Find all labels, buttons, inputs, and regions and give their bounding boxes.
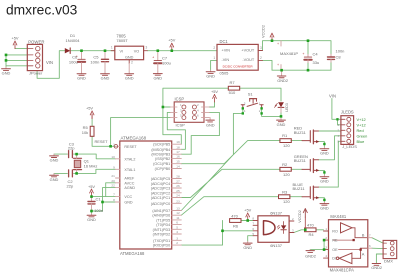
svg-text:25: 25: [176, 189, 180, 193]
svg-text:BUZ11: BUZ11: [293, 186, 306, 191]
svg-text:+5V: +5V: [168, 38, 175, 43]
svg-text:GND: GND: [320, 179, 329, 184]
svg-text:28: 28: [176, 175, 180, 179]
svg-text:23: 23: [176, 199, 180, 203]
svg-text:GND: GND: [87, 217, 96, 222]
svg-text:14: 14: [176, 165, 180, 169]
svg-text:(ADC2)PC2: (ADC2)PC2: [151, 191, 170, 195]
svg-text:100u: 100u: [69, 60, 78, 65]
svg-text:7: 7: [113, 193, 115, 197]
svg-text:17: 17: [176, 150, 180, 154]
svg-text:3: 3: [145, 46, 147, 50]
svg-text:GND: GND: [206, 74, 215, 79]
svg-text:ICSP: ICSP: [176, 123, 186, 128]
svg-text:MAX481CPA: MAX481CPA: [330, 268, 355, 273]
svg-text:C4: C4: [313, 51, 319, 56]
svg-text:1: 1: [111, 46, 113, 50]
svg-text:AGND: AGND: [124, 186, 135, 190]
svg-text:ATMEGA168: ATMEGA168: [121, 136, 147, 141]
svg-text:(T1)PD5: (T1)PD5: [156, 218, 170, 222]
svg-text:R6: R6: [233, 223, 239, 228]
svg-text:+VIN: +VIN: [222, 48, 231, 52]
svg-text:6N137: 6N137: [270, 243, 283, 248]
svg-text:100n: 100n: [94, 208, 103, 213]
svg-text:100n: 100n: [90, 60, 99, 65]
svg-text:+5V: +5V: [211, 89, 218, 94]
svg-text:2: 2: [213, 46, 215, 50]
svg-text:(MOSI)PB3: (MOSI)PB3: [151, 153, 170, 157]
svg-text:-VOUT: -VOUT: [242, 58, 254, 62]
svg-text:VCC: VCC: [124, 195, 132, 199]
svg-text:(INT1)PD3: (INT1)PD3: [153, 228, 171, 232]
svg-text:-VIN: -VIN: [222, 58, 230, 62]
svg-text:AVCC: AVCC: [124, 181, 134, 185]
svg-text:GND: GND: [125, 55, 134, 59]
svg-text:+5V: +5V: [244, 208, 251, 213]
svg-text:VCCD2: VCCD2: [262, 25, 266, 38]
svg-text:9: 9: [113, 165, 115, 169]
svg-text:(ADC4)PC4: (ADC4)PC4: [151, 182, 170, 186]
svg-text:GND: GND: [243, 245, 252, 250]
svg-text:470: 470: [231, 214, 238, 219]
svg-text:XTAL2: XTAL2: [124, 157, 135, 161]
svg-text:AREF: AREF: [124, 177, 135, 181]
svg-text:R7: R7: [230, 80, 236, 85]
svg-text:8: 8: [113, 198, 115, 202]
svg-text:VO: VO: [134, 49, 140, 53]
svg-text:+5V: +5V: [86, 105, 93, 110]
svg-text:JPower: JPower: [29, 71, 43, 76]
svg-text:GND: GND: [320, 151, 329, 156]
svg-text:6: 6: [176, 221, 178, 225]
svg-text:GND: GND: [277, 122, 286, 127]
svg-text:GND: GND: [153, 75, 162, 80]
svg-text:(RXD)PD0: (RXD)PD0: [153, 244, 170, 248]
svg-text:Blue: Blue: [357, 139, 365, 144]
svg-text:VI: VI: [120, 49, 124, 53]
svg-text:24: 24: [176, 194, 180, 198]
svg-text:11: 11: [176, 216, 179, 220]
svg-text:2: 2: [176, 241, 178, 245]
svg-text:120: 120: [283, 172, 290, 177]
svg-text:20: 20: [111, 179, 115, 183]
svg-text:10k: 10k: [82, 130, 88, 135]
svg-text:3: 3: [260, 46, 262, 50]
svg-text:2: 2: [131, 61, 133, 65]
svg-text:JLEDS: JLEDS: [341, 110, 354, 115]
svg-text:1: 1: [213, 56, 215, 60]
svg-text:7805T: 7805T: [116, 38, 128, 43]
svg-text:S1: S1: [248, 91, 254, 96]
svg-text:MAX481: MAX481: [330, 214, 346, 219]
svg-text:V+12: V+12: [357, 117, 366, 122]
svg-text:100n: 100n: [336, 49, 345, 54]
svg-text:(AIN1)PD7: (AIN1)PD7: [152, 209, 170, 213]
svg-text:GND: GND: [2, 71, 11, 76]
svg-text:DC/DC CONVERTER: DC/DC CONVERTER: [223, 65, 254, 69]
svg-text:GND: GND: [124, 201, 133, 205]
svg-text:12: 12: [176, 211, 180, 215]
svg-text:GND2: GND2: [277, 78, 288, 83]
svg-text:19: 19: [176, 140, 180, 144]
svg-text:GND2: GND2: [305, 253, 316, 258]
svg-text:VIN: VIN: [329, 94, 336, 99]
svg-text:GND: GND: [77, 76, 86, 81]
svg-text:ATMEGA168: ATMEGA168: [120, 251, 145, 256]
svg-text:+5V: +5V: [88, 184, 95, 189]
svg-text:(ADC1)PC1: (ADC1)PC1: [151, 196, 170, 200]
svg-text:DMX: DMX: [384, 259, 393, 264]
svg-text:OE: OE: [332, 248, 338, 252]
svg-text:100u: 100u: [162, 61, 171, 66]
svg-text:26: 26: [176, 184, 180, 188]
svg-text:POWER: POWER: [28, 39, 44, 44]
svg-text:+: +: [152, 56, 154, 60]
svg-text:dmxrec.v03: dmxrec.v03: [6, 2, 78, 17]
svg-text:(ICP)PB0: (ICP)PB0: [155, 167, 171, 171]
svg-text:1: 1: [113, 142, 115, 146]
svg-text:C1: C1: [96, 196, 102, 201]
svg-text:GND: GND: [50, 158, 59, 163]
svg-text:21: 21: [111, 174, 115, 178]
svg-text:(ADC0)PC0: (ADC0)PC0: [151, 202, 170, 206]
svg-text:GND: GND: [206, 122, 215, 127]
svg-text:13: 13: [176, 207, 180, 211]
svg-text:ICSP: ICSP: [175, 97, 185, 102]
svg-text:4: 4: [176, 230, 178, 234]
svg-text:3: 3: [176, 236, 178, 240]
svg-text:+VOUT: +VOUT: [241, 48, 254, 52]
svg-text:VCCD2: VCCD2: [298, 210, 302, 223]
svg-text:16 MHz: 16 MHz: [84, 163, 98, 168]
svg-text:510: 510: [229, 90, 236, 95]
svg-text:LED3: LED3: [285, 103, 289, 112]
svg-text:(ADC3)PC3: (ADC3)PC3: [151, 187, 170, 191]
svg-text:VIN: VIN: [46, 60, 53, 65]
svg-text:22p: 22p: [67, 183, 74, 188]
svg-text:6N137: 6N137: [270, 211, 283, 216]
svg-text:15: 15: [176, 160, 180, 164]
svg-text:GND: GND: [101, 76, 110, 81]
svg-text:(AIN0)PD6: (AIN0)PD6: [152, 214, 170, 218]
svg-text:Red: Red: [357, 128, 364, 133]
svg-text:C8: C8: [336, 54, 342, 59]
svg-text:120: 120: [283, 199, 290, 204]
svg-text:RO: RO: [332, 229, 338, 233]
svg-text:GND: GND: [320, 205, 329, 210]
svg-text:27: 27: [176, 179, 180, 183]
svg-text:R4: R4: [309, 232, 315, 237]
svg-text:A: A: [362, 251, 365, 256]
svg-text:2: 2: [260, 56, 262, 60]
svg-text:J_LEDS: J_LEDS: [342, 144, 357, 149]
svg-text:(/SS)PB2: (/SS)PB2: [155, 157, 170, 161]
svg-text:V+12: V+12: [357, 122, 366, 127]
svg-text:Green: Green: [357, 133, 368, 138]
svg-text:(T0)PD4: (T0)PD4: [156, 223, 170, 227]
svg-text:18: 18: [176, 145, 180, 149]
svg-text:MAX481P: MAX481P: [280, 51, 298, 56]
svg-text:22p: 22p: [68, 146, 75, 151]
svg-text:C7: C7: [162, 55, 168, 60]
svg-text:R3: R3: [282, 189, 288, 194]
svg-text:120: 120: [283, 143, 290, 148]
svg-text:1N4004: 1N4004: [66, 38, 81, 43]
svg-text:5: 5: [176, 225, 178, 229]
svg-text:GND: GND: [125, 76, 134, 81]
svg-text:BUZ11: BUZ11: [294, 158, 307, 163]
svg-text:16: 16: [176, 155, 180, 159]
svg-text:33u: 33u: [313, 60, 320, 65]
svg-text:DI: DI: [332, 257, 336, 261]
svg-text:(TXD)PD1: (TXD)PD1: [153, 239, 170, 243]
svg-text:RE: RE: [332, 239, 338, 243]
svg-text:(ADC5)PC5: (ADC5)PC5: [151, 177, 170, 181]
svg-text:+: +: [277, 63, 279, 67]
svg-text:RESET: RESET: [95, 139, 109, 144]
svg-text:R2: R2: [282, 162, 288, 167]
svg-text:0505: 0505: [220, 71, 230, 76]
svg-text:22: 22: [111, 184, 115, 188]
svg-text:XTAL1: XTAL1: [124, 168, 135, 172]
svg-text:(MISO)PB4: (MISO)PB4: [151, 148, 170, 152]
svg-text:(OC1)PB1: (OC1)PB1: [153, 162, 170, 166]
svg-text:RESET: RESET: [124, 145, 137, 149]
svg-text:+5V: +5V: [11, 36, 18, 41]
svg-text:GND: GND: [50, 177, 59, 182]
svg-text:10: 10: [111, 155, 115, 159]
svg-text:+: +: [302, 52, 304, 56]
svg-text:GND2: GND2: [371, 265, 382, 270]
svg-text:(SCK)PB5: (SCK)PB5: [153, 143, 170, 147]
svg-text:(INT0)PD2: (INT0)PD2: [153, 233, 171, 237]
svg-text:BUZ11: BUZ11: [294, 130, 307, 135]
svg-text:R1: R1: [282, 133, 288, 138]
svg-text:DC1: DC1: [220, 39, 229, 44]
svg-text:470: 470: [307, 222, 314, 227]
svg-text:B: B: [362, 232, 365, 237]
svg-text:+: +: [277, 42, 279, 46]
